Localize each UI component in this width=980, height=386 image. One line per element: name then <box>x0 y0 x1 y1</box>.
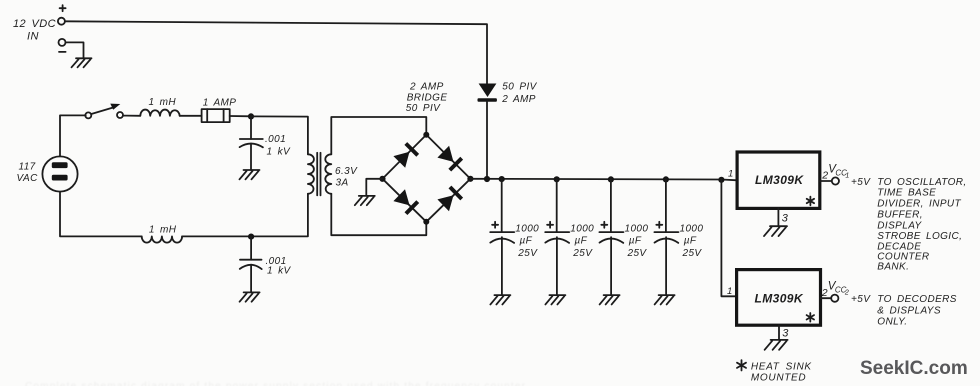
wire: switch to L1 <box>123 115 140 117</box>
wire: +5V unregulated rail <box>470 179 737 181</box>
svg-text:TO OSCILLATOR,: TO OSCILLATOR, <box>877 177 966 188</box>
junction: bridge bottom vertex <box>423 219 429 225</box>
junction: bridge left vertex <box>379 176 385 182</box>
label: 6.3V 3A <box>335 166 358 189</box>
svg-text:50 PIV: 50 PIV <box>406 103 441 114</box>
svg-text:+5V: +5V <box>851 294 871 305</box>
label: 1000 uF 25V (C5) <box>625 223 649 259</box>
bridge rectifier frame <box>383 135 471 222</box>
svg-text:6.3V: 6.3V <box>335 166 358 177</box>
diode D3 (bridge top-right, cathode right vertex) <box>437 146 463 172</box>
transformer T1 primary winding <box>308 154 314 194</box>
wire: V1 top to switch <box>60 115 86 156</box>
svg-text:IN: IN <box>27 31 39 43</box>
svg-text:+5V: +5V <box>851 177 871 188</box>
svg-text:25V: 25V <box>682 248 703 259</box>
label: LM309K (U1) <box>755 173 804 187</box>
svg-text:TO DECODERS: TO DECODERS <box>877 294 957 305</box>
label: 117 VAC <box>17 161 39 184</box>
label: 12 VDC IN <box>13 18 56 43</box>
svg-text:12 VDC: 12 VDC <box>13 18 56 30</box>
ground: C3 <box>490 295 510 304</box>
label: 1000 uF 25V (C3) <box>515 223 539 259</box>
ghost caption remnants at page bottom <box>25 381 526 386</box>
svg-text:2 AMP: 2 AMP <box>409 82 444 93</box>
svg-text:1: 1 <box>728 168 734 179</box>
ground: C2 <box>240 292 260 301</box>
wire: U1 pin 3 <box>777 208 779 226</box>
inductor L1 1 mH <box>140 110 179 116</box>
svg-text:25V: 25V <box>627 248 648 259</box>
capacitor C6 1000uF 25V <box>654 176 678 295</box>
terminal: U2 +5V output <box>831 295 838 302</box>
svg-text:Complete schematic diagram of: Complete schematic diagram of the power … <box>25 381 526 386</box>
svg-text:MOUNTED: MOUNTED <box>751 373 806 384</box>
svg-text:1000: 1000 <box>515 223 539 234</box>
label: pin 3 (U2) <box>782 328 789 340</box>
wire: +12V top rail from input terminal to diode D1 <box>65 21 487 84</box>
junction: rail to U2 feed <box>718 177 724 183</box>
terminal: 12 VDC positive input <box>58 18 65 25</box>
svg-text:BRIDGE: BRIDGE <box>407 92 448 103</box>
wire: secondary bottom to bridge bottom <box>331 194 426 235</box>
junction: D1 to rail <box>484 176 490 182</box>
svg-text:TIME BASE: TIME BASE <box>877 188 936 199</box>
svg-text:1 mH: 1 mH <box>149 97 177 108</box>
wire: L1 to fuse F1 <box>180 115 202 117</box>
svg-text:1 kV: 1 kV <box>267 147 292 158</box>
svg-text:1000: 1000 <box>625 223 649 234</box>
ground: C5 <box>600 295 620 304</box>
label: HEAT SINK MOUNTED <box>751 362 812 384</box>
svg-text:.001: .001 <box>265 134 286 145</box>
capacitor C4 1000uF 25V <box>545 176 569 295</box>
svg-text:BANK.: BANK. <box>877 262 909 273</box>
capacitor C1 .001 1kV <box>240 116 263 170</box>
label: 1 AMP <box>203 98 237 109</box>
junction J1 <box>248 113 254 119</box>
label: LM309K (U2) <box>755 291 804 305</box>
wire: U1 pin 2 to output terminal <box>820 180 832 182</box>
diode D1 50 PIV 2 AMP <box>478 84 497 102</box>
svg-text:1 AMP: 1 AMP <box>203 98 237 109</box>
capacitor C3 1000uF 25V <box>490 176 514 295</box>
label: .001 1 kV (C1) <box>265 134 291 157</box>
wire: J1 to transformer primary top <box>251 116 308 154</box>
terminal: U1 +5V output <box>832 177 839 184</box>
svg-text:1: 1 <box>845 173 849 180</box>
label: 50 PIV 2 AMP (D1) <box>501 82 537 106</box>
label: +5V to decoders text block <box>851 294 957 327</box>
label: heat sink mounted note asterisk <box>737 360 746 370</box>
svg-text:SeekIC.com: SeekIC.com <box>860 358 968 379</box>
svg-text:LM309K: LM309K <box>755 173 804 187</box>
svg-text:VAC: VAC <box>17 173 39 184</box>
svg-text:25V: 25V <box>572 248 593 259</box>
wire: U2 pin 2 to output terminal <box>821 297 832 299</box>
regulator U2 LM309K <box>737 270 821 326</box>
wire: return terminal to ground <box>66 42 84 58</box>
wire: F1 to junction J1 <box>230 115 251 117</box>
svg-text:1000: 1000 <box>680 223 704 234</box>
label: .001 1 kV (C2) <box>266 256 292 276</box>
svg-text:1 mH: 1 mH <box>149 224 177 235</box>
terminal: 12 VDC return input <box>59 39 66 46</box>
wire: V1 bottom to inductor L2 <box>60 192 142 237</box>
source V1 117 VAC line plug <box>42 156 77 191</box>
inductor L2 1 mH (bottom) <box>142 236 182 242</box>
svg-text:µF: µF <box>575 236 588 247</box>
wire: L2 to transformer primary bottom <box>182 194 308 237</box>
svg-text:HEAT SINK: HEAT SINK <box>751 362 812 373</box>
svg-text:3A: 3A <box>336 178 349 189</box>
transformer T1 secondary winding <box>325 154 331 194</box>
label: heat sink asterisk U2 <box>807 313 814 322</box>
label: 1 mH (L1) <box>149 97 177 108</box>
svg-text:1: 1 <box>727 286 733 297</box>
svg-text:µF: µF <box>629 236 642 247</box>
label: +5V to oscillator text block <box>851 177 967 273</box>
ground: U2 <box>765 340 788 350</box>
wire: U2 pin 3 <box>778 325 780 340</box>
svg-text:50 PIV: 50 PIV <box>502 82 537 93</box>
svg-text:2 AMP: 2 AMP <box>501 94 536 105</box>
label: heat sink asterisk U1 <box>807 197 814 206</box>
label: 2 AMP BRIDGE 50 PIV <box>406 82 448 115</box>
svg-text:1 kV: 1 kV <box>267 266 292 277</box>
label: Vcc2 <box>828 280 849 296</box>
label: + polarity <box>60 5 66 11</box>
wire: secondary top to bridge top <box>331 117 426 154</box>
ground: bridge <box>355 196 375 205</box>
label: Vcc1 <box>828 163 849 179</box>
wire: rail down to U2 pin 1 <box>721 180 736 296</box>
svg-text:2: 2 <box>844 290 849 297</box>
svg-text:µF: µF <box>520 236 533 247</box>
label: pin 3 (U1) <box>782 212 789 224</box>
capacitor C5 1000uF 25V <box>599 176 623 295</box>
svg-text:3: 3 <box>782 212 789 224</box>
ground: 12V return <box>72 58 92 67</box>
label: 1 mH (L2) <box>149 224 177 235</box>
svg-text:25V: 25V <box>517 248 538 259</box>
label: 1000 uF 25V (C6) <box>680 223 704 259</box>
label: pin 1 (U2) <box>727 286 733 297</box>
junction: bridge right vertex <box>467 176 473 182</box>
svg-text:& DISPLAYS: & DISPLAYS <box>877 306 941 317</box>
svg-text:1000: 1000 <box>570 223 594 234</box>
wire: bridge left vertex to ground <box>366 179 382 196</box>
svg-text:STROBE LOGIC,: STROBE LOGIC, <box>877 231 962 242</box>
regulator U1 LM309K <box>737 152 820 208</box>
wire: D1 cathode to +5V rail <box>486 101 488 179</box>
label: pin 2 (U1) <box>821 170 828 182</box>
fuse F1 1 AMP <box>202 109 230 122</box>
svg-text:BUFFER,: BUFFER, <box>877 210 923 221</box>
label: - polarity <box>59 51 66 53</box>
ground: C1 <box>240 170 260 179</box>
junction: bridge top vertex <box>423 132 429 138</box>
ground: C6 <box>655 295 675 304</box>
switch S1 <box>85 104 123 119</box>
ground: C4 <box>545 295 565 304</box>
transformer T1 core <box>317 153 320 196</box>
svg-text:ONLY.: ONLY. <box>877 316 907 327</box>
label: pin 1 (U1) <box>728 168 734 179</box>
svg-text:LM309K: LM309K <box>755 291 804 305</box>
label: pin 2 (U2) <box>821 287 828 299</box>
watermark: SeekIC.com <box>860 358 968 379</box>
diode D2 (bridge left-top, anode left vertex) <box>393 142 419 168</box>
ground: U1 <box>764 226 787 236</box>
capacitor C2 .001 1kV <box>240 237 262 293</box>
svg-text:µF: µF <box>684 236 697 247</box>
svg-text:DIVIDER, INPUT: DIVIDER, INPUT <box>877 199 961 210</box>
label: 1000 uF 25V (C4) <box>570 223 594 259</box>
svg-text:117: 117 <box>19 161 36 172</box>
junction J2 <box>248 234 254 240</box>
svg-text:3: 3 <box>782 328 789 340</box>
diode D5 (bridge bottom-right, cathode right vertex) <box>437 186 463 212</box>
diode D4 (bridge left-bottom, cathode bottom vertex) <box>393 189 419 215</box>
